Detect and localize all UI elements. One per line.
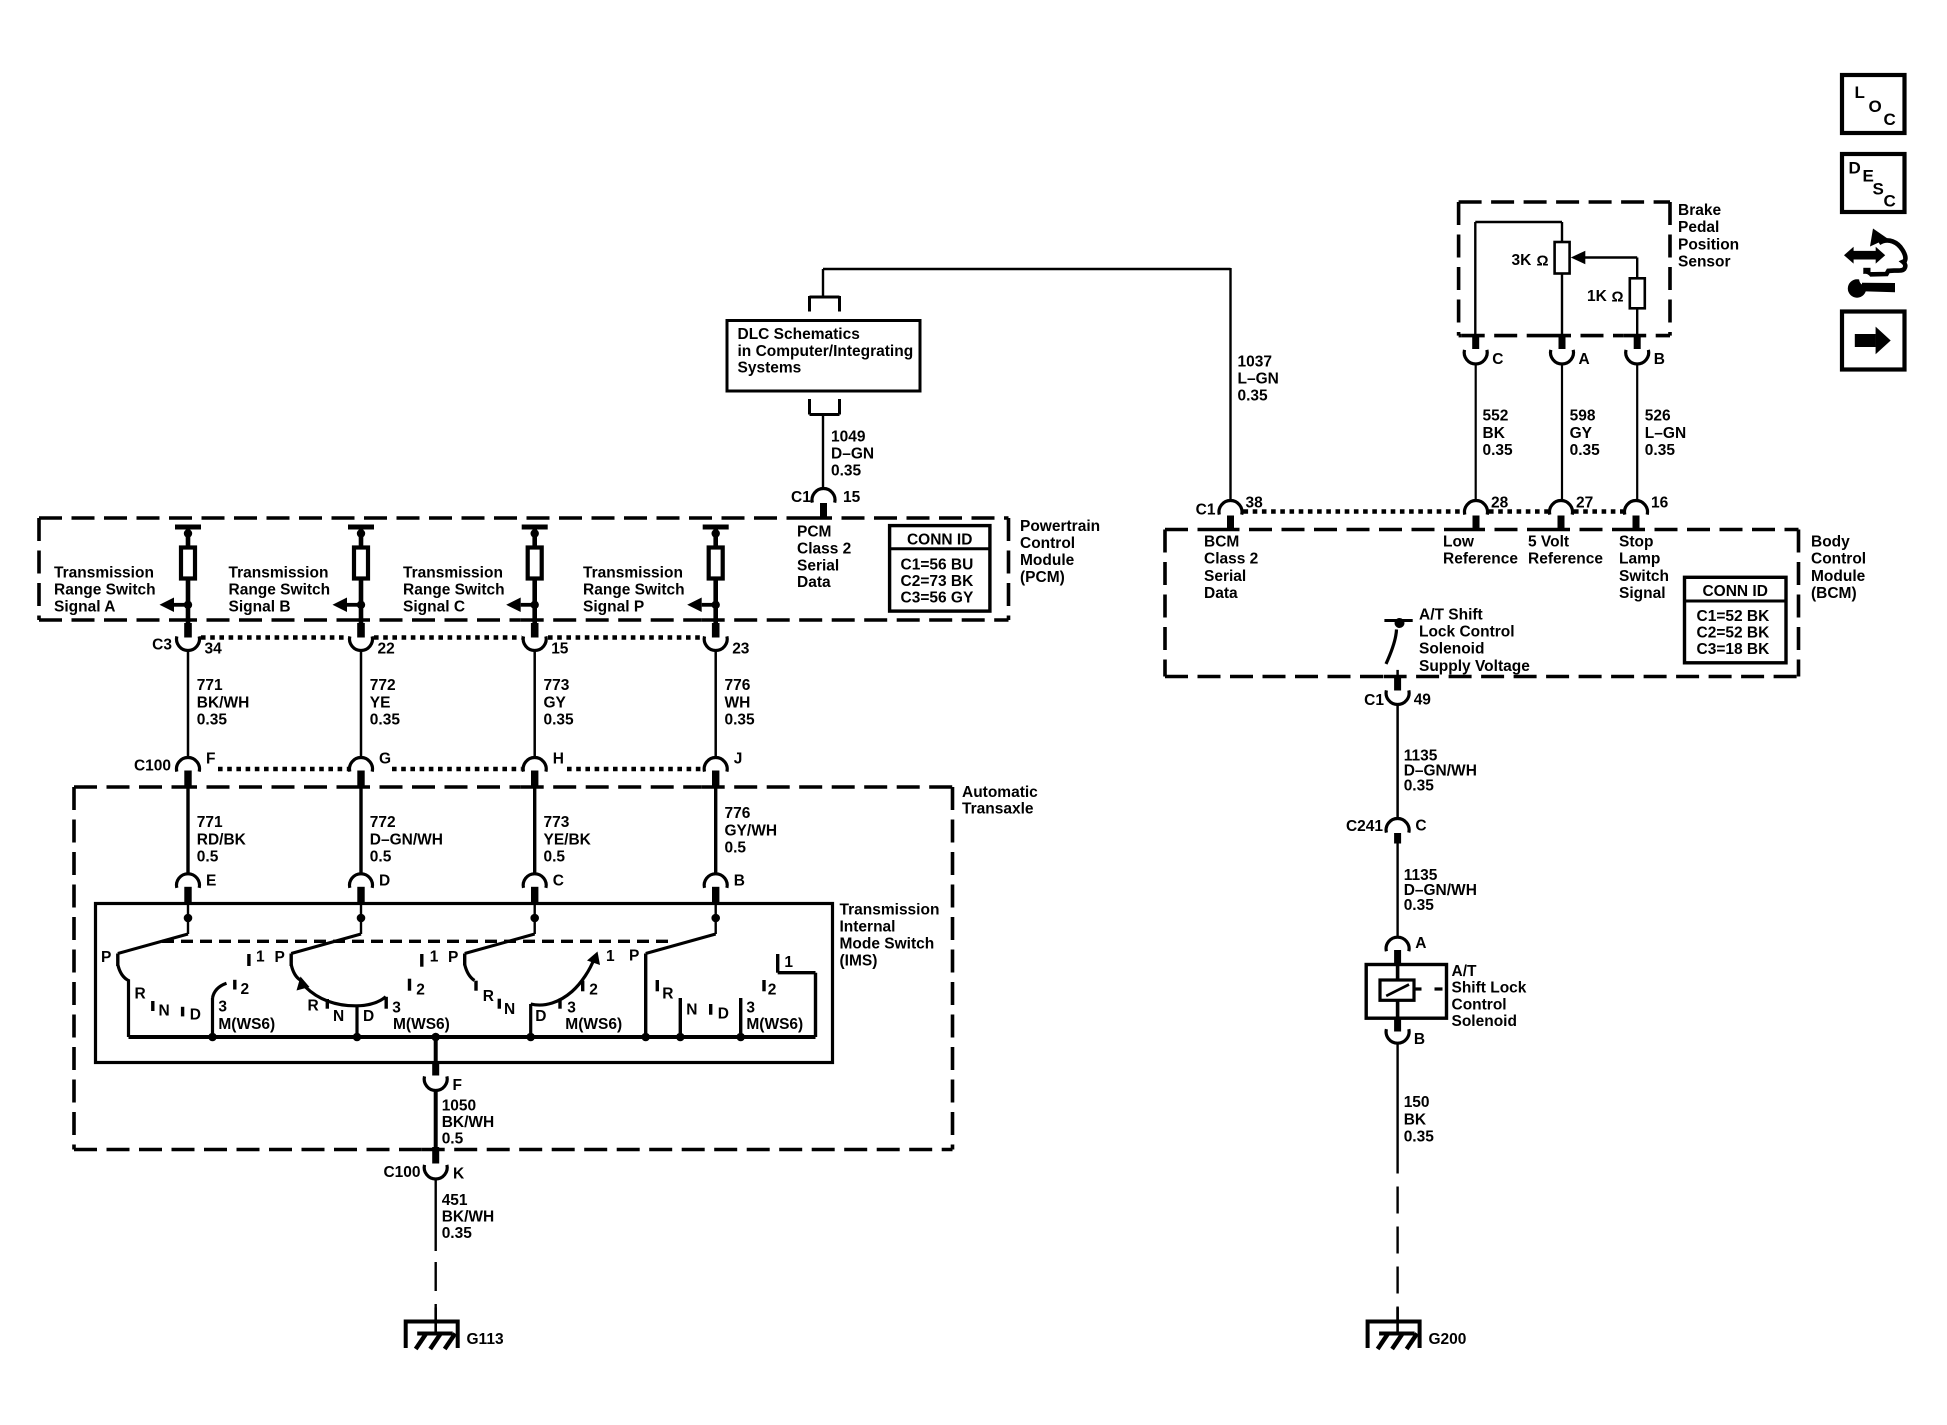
- svg-text:Solenoid: Solenoid: [1419, 641, 1484, 658]
- svg-text:D: D: [379, 873, 390, 890]
- svg-text:D: D: [535, 1008, 546, 1025]
- svg-text:598: 598: [1570, 408, 1596, 425]
- svg-text:0.35: 0.35: [831, 463, 862, 480]
- svg-text:N: N: [159, 1003, 170, 1020]
- svg-text:0.35: 0.35: [1404, 897, 1435, 914]
- svg-text:1: 1: [784, 954, 793, 971]
- svg-text:N: N: [333, 1008, 344, 1025]
- svg-text:22: 22: [378, 641, 395, 658]
- svg-text:526: 526: [1645, 408, 1671, 425]
- svg-text:C2=73 BK: C2=73 BK: [901, 573, 975, 590]
- svg-text:0.35: 0.35: [370, 712, 401, 729]
- svg-text:Class 2: Class 2: [797, 540, 851, 557]
- svg-text:27: 27: [1576, 495, 1593, 512]
- svg-text:0.35: 0.35: [1238, 388, 1269, 405]
- svg-text:C3=18 BK: C3=18 BK: [1697, 641, 1771, 658]
- svg-text:H: H: [553, 751, 564, 768]
- svg-text:GY: GY: [544, 694, 567, 711]
- svg-text:1K: 1K: [1587, 288, 1608, 305]
- svg-text:552: 552: [1483, 408, 1509, 425]
- svg-text:BK/WH: BK/WH: [197, 694, 250, 711]
- svg-text:CONN ID: CONN ID: [1702, 583, 1767, 600]
- svg-text:C1: C1: [791, 489, 811, 506]
- svg-text:1: 1: [606, 948, 615, 965]
- svg-text:P: P: [629, 948, 639, 965]
- svg-text:M(WS6): M(WS6): [218, 1016, 275, 1033]
- svg-text:C100: C100: [383, 1164, 420, 1181]
- svg-text:Transmission: Transmission: [840, 902, 940, 919]
- svg-text:150: 150: [1404, 1094, 1430, 1111]
- svg-text:C2=52 BK: C2=52 BK: [1697, 625, 1771, 642]
- svg-text:C100: C100: [134, 758, 171, 775]
- svg-text:0.35: 0.35: [442, 1225, 473, 1242]
- svg-text:D–GN: D–GN: [831, 446, 874, 463]
- svg-text:D: D: [1849, 159, 1861, 178]
- svg-text:38: 38: [1246, 495, 1264, 512]
- svg-text:YE/BK: YE/BK: [544, 831, 592, 848]
- svg-text:D: D: [718, 1006, 729, 1023]
- svg-text:Module: Module: [1020, 552, 1075, 569]
- svg-text:771: 771: [197, 677, 223, 694]
- svg-text:49: 49: [1414, 692, 1432, 709]
- svg-text:1050: 1050: [442, 1098, 476, 1115]
- svg-text:WH: WH: [725, 694, 751, 711]
- svg-text:D: D: [363, 1008, 374, 1025]
- svg-text:Body: Body: [1811, 534, 1850, 551]
- svg-text:Low: Low: [1443, 534, 1475, 551]
- svg-text:Range Switch: Range Switch: [54, 582, 156, 599]
- svg-text:Data: Data: [797, 574, 831, 591]
- svg-text:2: 2: [589, 982, 598, 999]
- svg-text:Transmission: Transmission: [54, 565, 154, 582]
- svg-text:Control: Control: [1811, 551, 1866, 568]
- svg-text:2: 2: [416, 982, 425, 999]
- svg-text:0.5: 0.5: [370, 849, 392, 866]
- svg-text:L–GN: L–GN: [1645, 425, 1686, 442]
- svg-text:Ω: Ω: [1612, 289, 1624, 306]
- svg-text:BK: BK: [1404, 1111, 1427, 1128]
- svg-text:C: C: [553, 873, 564, 890]
- svg-text:1049: 1049: [831, 429, 866, 446]
- svg-text:GY/WH: GY/WH: [725, 822, 778, 839]
- svg-text:(BCM): (BCM): [1811, 585, 1857, 602]
- svg-text:1037: 1037: [1238, 354, 1272, 371]
- svg-text:M(WS6): M(WS6): [565, 1016, 622, 1033]
- svg-text:N: N: [504, 1001, 515, 1018]
- svg-text:Position: Position: [1678, 236, 1739, 253]
- svg-text:Module: Module: [1811, 568, 1866, 585]
- svg-text:1: 1: [430, 949, 439, 966]
- svg-text:(PCM): (PCM): [1020, 569, 1065, 586]
- svg-text:Shift Lock: Shift Lock: [1452, 980, 1527, 997]
- svg-text:Control: Control: [1020, 535, 1075, 552]
- svg-text:Reference: Reference: [1443, 551, 1518, 568]
- svg-text:P: P: [448, 949, 458, 966]
- svg-text:M(WS6): M(WS6): [746, 1016, 803, 1033]
- svg-text:23: 23: [732, 641, 750, 658]
- svg-text:5 Volt: 5 Volt: [1528, 534, 1569, 551]
- svg-text:C3=56 GY: C3=56 GY: [901, 590, 974, 607]
- svg-text:Transmission: Transmission: [583, 565, 683, 582]
- svg-text:Data: Data: [1204, 585, 1238, 602]
- svg-text:BCM: BCM: [1204, 534, 1239, 551]
- svg-text:772: 772: [370, 677, 396, 694]
- svg-text:C1=52 BK: C1=52 BK: [1697, 608, 1771, 625]
- svg-text:0.35: 0.35: [725, 712, 756, 729]
- svg-text:L: L: [1855, 83, 1865, 102]
- svg-text:Signal P: Signal P: [583, 599, 644, 616]
- svg-text:(IMS): (IMS): [840, 953, 878, 970]
- svg-text:E: E: [206, 873, 216, 890]
- svg-text:S: S: [1873, 180, 1884, 199]
- svg-text:Supply Voltage: Supply Voltage: [1419, 658, 1530, 675]
- svg-text:2: 2: [768, 982, 777, 999]
- svg-text:Class 2: Class 2: [1204, 551, 1258, 568]
- svg-text:B: B: [734, 873, 745, 890]
- svg-text:Signal A: Signal A: [54, 599, 115, 616]
- svg-text:C: C: [1492, 351, 1503, 368]
- svg-text:Signal B: Signal B: [229, 599, 291, 616]
- svg-text:C: C: [1415, 818, 1426, 835]
- svg-text:3: 3: [392, 1000, 401, 1017]
- svg-text:3: 3: [218, 999, 227, 1016]
- svg-text:B: B: [1414, 1031, 1425, 1048]
- svg-text:R: R: [662, 986, 673, 1003]
- svg-text:Signal C: Signal C: [403, 599, 465, 616]
- svg-text:Sensor: Sensor: [1678, 254, 1731, 271]
- svg-text:A: A: [1579, 351, 1590, 368]
- svg-text:YE: YE: [370, 694, 391, 711]
- svg-text:PCM: PCM: [797, 524, 831, 541]
- svg-text:3K: 3K: [1512, 252, 1533, 269]
- svg-text:GY: GY: [1570, 425, 1593, 442]
- svg-text:773: 773: [544, 677, 570, 694]
- svg-text:0.35: 0.35: [1645, 442, 1676, 459]
- svg-text:F: F: [453, 1077, 462, 1094]
- svg-text:Systems: Systems: [738, 360, 802, 377]
- svg-text:F: F: [206, 751, 215, 768]
- svg-text:R: R: [308, 998, 319, 1015]
- svg-text:451: 451: [442, 1192, 468, 1209]
- svg-text:Powertrain: Powertrain: [1020, 518, 1100, 535]
- svg-text:0.35: 0.35: [544, 712, 575, 729]
- svg-text:34: 34: [205, 641, 223, 658]
- svg-text:Control: Control: [1452, 996, 1507, 1013]
- svg-text:15: 15: [551, 641, 569, 658]
- svg-text:Lamp: Lamp: [1619, 551, 1660, 568]
- svg-text:O: O: [1869, 97, 1882, 116]
- svg-text:R: R: [483, 988, 494, 1005]
- svg-text:3: 3: [567, 1000, 576, 1017]
- svg-text:in Computer/Integrating: in Computer/Integrating: [738, 343, 914, 360]
- svg-text:G113: G113: [467, 1331, 504, 1348]
- svg-text:0.5: 0.5: [725, 840, 747, 857]
- svg-text:773: 773: [544, 814, 570, 831]
- svg-text:Range Switch: Range Switch: [583, 582, 685, 599]
- svg-text:C: C: [1884, 110, 1896, 129]
- svg-text:15: 15: [843, 489, 861, 506]
- svg-text:N: N: [686, 1002, 697, 1019]
- svg-text:Solenoid: Solenoid: [1452, 1013, 1517, 1030]
- svg-text:3: 3: [746, 1000, 755, 1017]
- svg-text:0.35: 0.35: [1404, 1129, 1435, 1146]
- svg-text:0.5: 0.5: [197, 849, 219, 866]
- svg-text:M(WS6): M(WS6): [393, 1016, 450, 1033]
- svg-text:Stop: Stop: [1619, 534, 1653, 551]
- svg-text:D: D: [190, 1007, 201, 1024]
- svg-text:Range Switch: Range Switch: [229, 582, 331, 599]
- svg-text:0.5: 0.5: [442, 1131, 464, 1148]
- svg-text:L–GN: L–GN: [1238, 371, 1279, 388]
- svg-text:CONN ID: CONN ID: [907, 532, 972, 549]
- svg-text:Ω: Ω: [1537, 253, 1549, 270]
- svg-text:2: 2: [241, 981, 250, 998]
- svg-text:C1=56 BU: C1=56 BU: [901, 557, 974, 574]
- svg-text:Serial: Serial: [1204, 568, 1246, 585]
- svg-text:776: 776: [725, 805, 751, 822]
- svg-text:G: G: [379, 751, 391, 768]
- svg-text:Pedal: Pedal: [1678, 219, 1719, 236]
- svg-text:C1: C1: [1364, 692, 1384, 709]
- svg-text:C1: C1: [1196, 502, 1216, 519]
- svg-text:R: R: [135, 986, 146, 1003]
- svg-text:771: 771: [197, 814, 223, 831]
- svg-text:J: J: [734, 751, 743, 768]
- svg-text:BK/WH: BK/WH: [442, 1114, 495, 1131]
- svg-text:Transmission: Transmission: [403, 565, 503, 582]
- svg-text:28: 28: [1491, 495, 1509, 512]
- svg-text:C3: C3: [152, 637, 172, 654]
- svg-text:Signal: Signal: [1619, 585, 1666, 602]
- svg-text:DLC Schematics: DLC Schematics: [738, 326, 860, 343]
- svg-text:Internal: Internal: [840, 919, 896, 936]
- svg-text:D–GN/WH: D–GN/WH: [370, 831, 443, 848]
- svg-text:A: A: [1415, 935, 1426, 952]
- svg-text:BK/WH: BK/WH: [442, 1208, 495, 1225]
- svg-text:0.35: 0.35: [197, 712, 228, 729]
- svg-text:1: 1: [256, 949, 265, 966]
- svg-text:776: 776: [725, 677, 751, 694]
- svg-text:Lock Control: Lock Control: [1419, 624, 1515, 641]
- svg-text:0.35: 0.35: [1570, 442, 1601, 459]
- svg-text:Brake: Brake: [1678, 202, 1721, 219]
- svg-text:Mode Switch: Mode Switch: [840, 936, 935, 953]
- svg-text:0.5: 0.5: [544, 849, 566, 866]
- svg-text:Range Switch: Range Switch: [403, 582, 505, 599]
- svg-text:0.35: 0.35: [1404, 778, 1435, 795]
- svg-text:B: B: [1654, 351, 1665, 368]
- svg-text:G200: G200: [1429, 1331, 1467, 1348]
- svg-text:0.35: 0.35: [1483, 442, 1514, 459]
- svg-text:16: 16: [1651, 495, 1669, 512]
- svg-text:Switch: Switch: [1619, 568, 1669, 585]
- svg-text:772: 772: [370, 814, 396, 831]
- svg-text:P: P: [275, 949, 285, 966]
- svg-text:Reference: Reference: [1528, 551, 1603, 568]
- svg-text:Transaxle: Transaxle: [962, 800, 1034, 817]
- svg-text:P: P: [101, 949, 111, 966]
- svg-text:C: C: [1884, 192, 1896, 211]
- svg-text:RD/BK: RD/BK: [197, 831, 247, 848]
- svg-text:Automatic: Automatic: [962, 784, 1038, 801]
- svg-text:Transmission: Transmission: [229, 565, 329, 582]
- svg-text:A/T Shift: A/T Shift: [1419, 607, 1483, 624]
- svg-text:BK: BK: [1483, 425, 1506, 442]
- svg-text:C241: C241: [1346, 818, 1383, 835]
- svg-text:K: K: [453, 1166, 465, 1183]
- svg-text:A/T: A/T: [1452, 963, 1478, 980]
- svg-text:Serial: Serial: [797, 557, 839, 574]
